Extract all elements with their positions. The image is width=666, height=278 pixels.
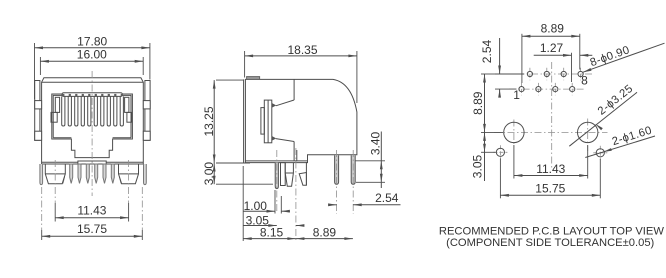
big holes center line [494,131,608,133]
dim 3.40 extension lines [356,160,386,162]
latch bottom bar [78,161,106,164]
front body outline [42,78,144,164]
pcb dim 1.27 [534,54,564,56]
side shield leg [275,163,278,189]
side body outline [245,79,357,162]
svg-text:1.27: 1.27 [540,41,564,55]
dim 17.80 [35,47,150,49]
side locator post [285,163,293,187]
pcb dim 2.54 [499,38,501,67]
label 2-ph1.60 [585,136,655,158]
front left tab lower [35,131,42,140]
front right tab upper [143,101,150,109]
pcb dim 8.89 top ext [521,34,523,83]
label 8-ph0.90 [583,43,665,72]
dim 3.00 extension line [216,183,273,185]
dim 18.35 extension lines [244,51,246,78]
pcb dim 15.75 ext [499,159,501,199]
pcb dim 3.05 [484,132,486,152]
svg-text:3.05: 3.05 [471,154,485,178]
dim 13.25 extension lines [216,79,244,81]
svg-text:13.25: 13.25 [202,106,216,136]
svg-text:15.75: 15.75 [535,181,565,195]
opening right channel [125,97,129,112]
dim 3.40 [380,132,382,189]
pcb dim 2.54 ext [495,73,524,75]
svg-text:RECOMMENDED P.C.B LAYOUT TOP V: RECOMMENDED P.C.B LAYOUT TOP VIEW [439,226,664,238]
side rect leg [281,163,286,186]
dim 1.00 [274,190,276,214]
mounting post left [45,164,65,184]
pcb dim 15.75 [500,194,600,196]
pcb dim 8.89 left [484,74,486,132]
mounting post right [119,164,139,184]
svg-text:18.35: 18.35 [287,43,317,57]
contact slots [62,96,65,126]
svg-text:11.43: 11.43 [536,162,565,176]
side flange rear rect [261,108,264,135]
svg-text:8.89: 8.89 [471,91,485,115]
pin holes row 1 (8-ph0.90) [518,73,593,75]
front left flange [35,81,40,141]
shield leg right [144,164,147,185]
dim 18.35 [245,55,357,57]
svg-text:3.40: 3.40 [368,131,382,155]
contact comb band [62,93,122,97]
dim 8.15 [243,238,296,240]
dim 8.15 extension line [242,166,244,241]
pcb dim 11.43 [514,175,588,177]
dim 13.25 [213,80,215,163]
pcb dim 8.89 left ext [481,73,495,75]
dim 15.75 [42,235,143,237]
dim 3.00 [213,163,215,184]
svg-text:17.80: 17.80 [77,34,107,48]
svg-text:3.00: 3.00 [202,162,216,186]
svg-text:8.89: 8.89 [541,22,565,36]
front left tab upper [35,101,42,109]
pcb dim 8.89 top [522,35,580,37]
svg-text:8: 8 [581,74,588,88]
svg-text:1.00: 1.00 [244,199,268,213]
leg hole left (ph1.60) [493,151,507,153]
side flange [264,100,272,143]
pcb center line [551,62,553,168]
flange barb top [272,103,276,108]
dim 16.00 extension lines [39,57,41,75]
pcb dim 3.05 ext [481,151,496,153]
svg-text:11.43: 11.43 [77,203,106,217]
post center lines [54,160,56,203]
svg-text:15.75: 15.75 [77,222,107,236]
dim 16.00 [40,60,143,62]
leg hole right (ph1.60) [593,152,607,154]
label 2-ph3.25 [569,92,637,146]
dim 11.43 [55,217,128,219]
leg center lines [41,187,43,230]
flange barb bottom [272,136,276,141]
front center line [91,71,93,196]
svg-text:1: 1 [513,88,520,102]
side gray tab [247,77,260,80]
shield leg left [40,164,43,185]
svg-text:8.89: 8.89 [313,225,337,239]
svg-text:2.54: 2.54 [480,39,494,63]
svg-text:8.15: 8.15 [260,225,284,239]
svg-text:2.54: 2.54 [375,191,399,205]
side rear hold-down [305,162,307,185]
side center lines [276,150,278,213]
post hole right (ph3.25) [587,119,589,152]
svg-text:16.00: 16.00 [77,48,107,62]
side contact pin row1 [335,155,339,184]
front right tab lower [143,131,150,140]
pcb dim 11.43 ext [513,145,515,179]
contact pins front view [61,164,64,183]
post hole left (ph3.25) [513,120,515,148]
dim 17.80 extension lines [34,43,36,99]
pcb dim 1.27 ext [571,53,573,82]
dim 2.54 rear [330,204,337,206]
side contact pin row2 [351,155,355,184]
front right flange [145,81,150,141]
pin holes row 2 [509,88,584,90]
svg-text:(COMPONENT SIDE TOLERANCE±0.05: (COMPONENT SIDE TOLERANCE±0.05) [446,237,654,249]
contact tips (ticks) [62,94,64,96]
jack opening outline [52,94,133,158]
opening left channel [55,97,59,112]
dim 8.89 bottom [296,238,353,240]
side cavity lines [293,79,295,100]
dim 3.05 [244,225,277,227]
